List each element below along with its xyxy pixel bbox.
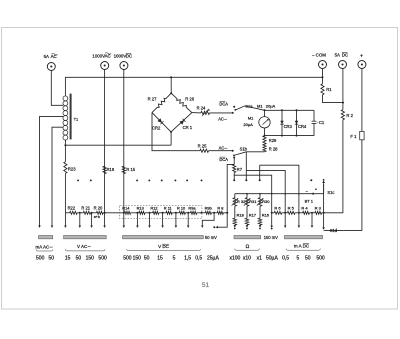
svg-text:+: + — [360, 54, 363, 60]
wire S1b DC contact down to R7 junction — [233, 158, 235, 165]
resistor R23 — [64, 162, 67, 174]
svg-text:1,5: 1,5 — [184, 255, 191, 261]
svg-text:50: 50 — [76, 255, 82, 261]
svg-text:0,5: 0,5 — [282, 255, 289, 261]
svg-text:R 20: R 20 — [94, 205, 103, 210]
wire mA-DC 50 tap — [311, 213, 313, 226]
wire ohm column 2 (R31+R17) — [246, 194, 248, 198]
svg-text:V DC: V DC — [158, 244, 170, 249]
switch contact arrow ohms x100 — [234, 225, 237, 227]
svg-text:R1: R1 — [326, 87, 332, 92]
svg-text:M1: M1 — [248, 116, 254, 121]
wire tap down to wafer arrow V-DC 15 — [162, 213, 164, 226]
wire + line below fuse down to S1d wire — [325, 140, 362, 231]
wire ohm column 3 (R30+R16) — [259, 194, 261, 198]
switch contact arrow ohms x1 — [259, 225, 262, 227]
resistor R29 — [263, 136, 266, 144]
transformer T1 core — [70, 94, 72, 140]
svg-text:CR3: CR3 — [284, 124, 293, 129]
diode CR2 (bridge arm) — [152, 113, 171, 132]
svg-text:AC∼: AC∼ — [219, 146, 228, 151]
node chain junction 1000VAC column — [103, 212, 123, 214]
wire junction branch to R8 right end — [227, 164, 234, 212]
svg-text:150: 150 — [86, 255, 95, 261]
resistor R15 — [122, 166, 125, 173]
wire tap down to wafer arrow V-AC 15 — [64, 213, 66, 226]
wire tap down to wafer arrow V-AC 150 — [91, 213, 93, 226]
resistor R4 — [303, 211, 310, 214]
resistor R19 — [103, 166, 106, 173]
rotary contact dots row — [77, 179, 79, 181]
svg-text:R 11: R 11 — [164, 206, 172, 211]
wire tap down to wafer arrow V-DC 50 — [149, 213, 151, 226]
dashed enclosure around V-DC divider — [120, 206, 202, 219]
svg-text:25µA: 25µA — [207, 255, 219, 261]
transformer T1 primary coil — [63, 96, 68, 101]
svg-text:500: 500 — [36, 255, 45, 261]
node junction transformer-bottom / bridge return rail — [64, 144, 66, 146]
svg-text:50: 50 — [144, 255, 150, 261]
svg-text:R13: R13 — [137, 206, 144, 211]
node chain junction S1d — [322, 212, 325, 214]
svg-text:20µA: 20µA — [266, 104, 276, 109]
terminal J4 -COM — [319, 61, 327, 69]
wire transformer bottom column down through R23 to chain — [64, 140, 66, 162]
switch contact stub+dot bus2 — [245, 170, 247, 179]
svg-text:R23: R23 — [68, 166, 76, 171]
wire chain segment left — [65, 212, 69, 214]
rheostat R31 — [245, 198, 248, 207]
switch contact arrow ohms x10 — [246, 225, 249, 227]
node chain tap V-DC 50 — [145, 212, 153, 214]
wire meter bottom rail — [265, 135, 315, 137]
resistor R26 (bridge arm) — [171, 93, 192, 112]
node chain tap V-DC 15 — [159, 212, 166, 214]
wire S1 bus 1 — [260, 165, 299, 213]
svg-text:– COM: – COM — [312, 52, 326, 57]
svg-text:5A: 5A — [335, 52, 340, 57]
svg-text:CR4: CR4 — [298, 124, 307, 129]
wire bridge top vertex to top rail — [170, 77, 172, 93]
switch S1c wiper left-arrow — [311, 192, 313, 195]
wire transformer tap 2 — [40, 117, 64, 226]
svg-text:R22: R22 — [68, 205, 76, 210]
switch contact arrow mA-AC 50 — [51, 226, 54, 228]
svg-text:R 27: R 27 — [148, 96, 158, 101]
wire R24 to S1a AC contact — [210, 112, 233, 114]
terminal J5 5A DC — [339, 61, 347, 69]
wire 5A DC line down to chain corner — [325, 120, 343, 213]
svg-text:R14: R14 — [122, 206, 130, 211]
svg-text:R9a: R9a — [188, 206, 196, 211]
svg-text:1000V: 1000V — [114, 53, 127, 58]
svg-text:DC: DC — [126, 53, 132, 58]
svg-text:20µA: 20µA — [243, 122, 253, 127]
resistor R20 — [96, 211, 103, 214]
wire ohms rail to S1c — [235, 193, 324, 195]
wire bridge bottom vertex drop — [170, 132, 172, 145]
svg-text:x10: x10 — [243, 255, 251, 261]
svg-text:R 6: R 6 — [274, 205, 281, 210]
capacitor C1 — [313, 110, 315, 121]
wire tap down to wafer arrow V-DC 150 — [136, 213, 138, 226]
wire S1c junction down to chain — [323, 194, 325, 213]
resistor R13 — [139, 211, 145, 214]
svg-text:R30: R30 — [262, 199, 270, 204]
svg-text:S1b: S1b — [240, 146, 248, 151]
svg-text:R7: R7 — [237, 167, 243, 172]
node bridge bottom vertex — [170, 131, 172, 133]
switch contact arrow mA-AC 500 — [38, 226, 41, 228]
terminal J2 1000V AC — [101, 62, 109, 70]
resistor R22 — [70, 211, 78, 214]
svg-text:R31: R31 — [249, 199, 257, 204]
svg-text:R 26: R 26 — [185, 96, 195, 101]
resistor R8 — [217, 211, 223, 214]
resistor R21 — [83, 211, 90, 214]
node S1c contact dot — [310, 179, 312, 181]
node S1b AC contact — [232, 150, 234, 152]
wire 5A AC terminal drop to transformer tap — [51, 71, 63, 106]
svg-text:R 21: R 21 — [81, 205, 90, 210]
node chain tap V-DC 150 — [131, 212, 139, 214]
svg-text:5A: 5A — [44, 54, 49, 59]
svg-text:CR 1: CR 1 — [183, 125, 193, 130]
wire bridge left vertex down to AC rail — [152, 113, 200, 151]
svg-text:C1: C1 — [319, 120, 325, 125]
diode CR1 (bridge arm) — [171, 113, 192, 132]
node chain junction 50uA (R6 left) — [272, 212, 275, 214]
svg-text:M1: M1 — [257, 104, 263, 109]
wire ohm column 1 (R32+R18) — [234, 194, 236, 198]
svg-text:Ω: Ω — [246, 244, 250, 250]
svg-text:R 3: R 3 — [315, 205, 322, 210]
wire tap down to wafer arrow V-DC 5 — [175, 213, 177, 226]
wire chain right end to 25uA step — [223, 212, 227, 214]
wire 5A DC terminal down — [342, 69, 344, 110]
svg-text:S1a: S1a — [245, 104, 253, 109]
node chain tap mA-DC 50 — [309, 212, 314, 214]
wire tap down to wafer arrow V-DC 1.5 — [187, 213, 189, 226]
switch contact arrow 25uA — [216, 226, 218, 229]
switch wafer bar mA-DC — [285, 236, 323, 239]
svg-text:15: 15 — [157, 255, 163, 261]
node chain junction R9a-R9b — [197, 212, 205, 214]
wire column3 to contact arrow — [259, 224, 261, 227]
wire + terminal down to fuse — [361, 69, 363, 132]
wire R28 bottom to S1b pivot — [246, 151, 264, 153]
fuse F1 — [360, 131, 364, 139]
wire column2 to contact arrow — [246, 224, 248, 227]
svg-text:5: 5 — [297, 255, 300, 261]
svg-text:R 24: R 24 — [197, 105, 206, 110]
switch S1c wiper up-arrow — [323, 183, 325, 194]
svg-text:R18: R18 — [237, 212, 245, 217]
svg-text:R 25: R 25 — [198, 144, 208, 149]
resistor R5 — [287, 211, 295, 214]
wire meter top rail — [265, 109, 315, 111]
svg-text:AC∼: AC∼ — [218, 116, 227, 121]
terminal J1 5A AC — [47, 63, 55, 71]
node junction -COM on rail — [322, 76, 324, 78]
svg-text:0,5: 0,5 — [195, 255, 202, 261]
svg-text:DC: DC — [342, 52, 348, 57]
svg-text:BT 1: BT 1 — [305, 199, 314, 204]
wire bridge right vertex to R24 — [192, 112, 201, 114]
rheostat R30 — [258, 198, 261, 207]
wire R1 to 5A DC line — [323, 95, 344, 103]
svg-text:R 10: R 10 — [177, 206, 186, 211]
svg-text:500: 500 — [123, 255, 132, 261]
resistor R3 — [315, 211, 322, 214]
wire column1 to contact arrow — [234, 224, 236, 227]
svg-text:F 1: F 1 — [350, 134, 357, 139]
battery BT1 polarity marks — [315, 188, 317, 190]
wire bridge return rail — [65, 144, 171, 146]
switch contact arrow V-DC 0.5 — [201, 226, 204, 228]
svg-text:500: 500 — [98, 255, 107, 261]
resistor R9b — [205, 211, 211, 214]
wire 1000V AC column down to chain — [104, 70, 106, 213]
svg-text:DCA: DCA — [219, 101, 228, 106]
node S1b DC contact — [233, 157, 235, 159]
resistor R18 — [233, 218, 236, 225]
wire R25 to S1b AC contact — [209, 150, 233, 152]
svg-text:R29: R29 — [269, 138, 277, 143]
svg-text:R 15: R 15 — [126, 167, 135, 172]
svg-text:15: 15 — [65, 255, 71, 261]
svg-text:51: 51 — [202, 282, 210, 289]
svg-text:1000V: 1000V — [92, 53, 105, 58]
switch wafer bar V-DC — [123, 236, 204, 239]
switch wafer bar V-AC — [64, 236, 107, 239]
svg-text:mA AC∼: mA AC∼ — [36, 245, 54, 250]
node junction bridge-top on rail — [170, 76, 172, 78]
switch contact stub+dot bus3 — [233, 175, 235, 179]
switch S1a wiper arm — [235, 106, 264, 110]
resistor R27 (bridge arm) — [152, 93, 171, 112]
wire mA-DC 0.5 tap — [284, 213, 286, 226]
wire tap down to wafer arrow V-DC 500 — [123, 213, 125, 226]
node chain tap mA-DC 0.5 — [282, 212, 288, 214]
svg-text:5: 5 — [173, 255, 176, 261]
svg-text:50: 50 — [49, 255, 55, 261]
wire S1 bus 3 from R7 — [234, 173, 272, 213]
svg-text:x100: x100 — [229, 255, 240, 261]
svg-text:R16: R16 — [262, 212, 270, 217]
svg-text:R 4: R 4 — [301, 205, 308, 210]
svg-text:R 28: R 28 — [269, 146, 278, 151]
terminal J6 + — [358, 61, 366, 69]
wire 1000V DC column down to chain — [123, 70, 125, 213]
wire S1d to + line — [324, 229, 326, 231]
svg-text:DCA: DCA — [219, 157, 228, 162]
resistor R17 — [245, 218, 248, 225]
node bridge top vertex — [170, 92, 172, 94]
switch S1b wiper arm — [234, 152, 246, 156]
resistor R11 — [166, 211, 172, 214]
node chain tap V-DC 5 — [172, 212, 179, 214]
wire S1 bus 2 from S1b pivot — [246, 152, 285, 213]
diode CR3 — [281, 110, 283, 135]
svg-text:S1c: S1c — [327, 190, 334, 195]
switch S1d wiper arrow — [323, 213, 325, 228]
svg-text:R 5: R 5 — [288, 205, 295, 210]
node chain tap V-AC 150 — [91, 212, 97, 214]
resistor R9a — [190, 211, 196, 214]
svg-text:V AC∼: V AC∼ — [77, 244, 91, 249]
node chain tap mA-DC 5 — [295, 212, 303, 214]
node chain tap V-AC 50 — [77, 212, 83, 214]
switch wafer bar ohms — [234, 236, 261, 239]
resistor R28 — [263, 144, 266, 152]
svg-text:R 32: R 32 — [237, 199, 246, 204]
wire mA-DC 5 tap — [298, 213, 300, 226]
wire 50uA tap — [271, 213, 273, 226]
svg-text:S1d: S1d — [330, 228, 338, 233]
svg-text:T1: T1 — [74, 117, 79, 122]
diode CR4 — [296, 110, 298, 135]
svg-text:50: 50 — [305, 255, 311, 261]
rheostat R32 — [233, 198, 236, 207]
wire 0.5V stepped tap — [202, 213, 214, 226]
svg-text:x1: x1 — [257, 255, 263, 261]
node S1a AC contact — [232, 112, 234, 114]
svg-text:R17: R17 — [249, 212, 257, 217]
resistor R6 — [274, 211, 282, 214]
svg-text:R 2: R 2 — [346, 113, 353, 118]
svg-text:150 mV: 150 mV — [264, 235, 278, 240]
svg-text:R 8: R 8 — [217, 206, 223, 211]
svg-text:R12: R12 — [150, 206, 157, 211]
svg-text:R9b: R9b — [205, 206, 212, 211]
node chain tap V-DC 1.5 — [185, 212, 190, 214]
resistor R12 — [153, 211, 159, 214]
meter M1 20uA — [264, 110, 266, 117]
terminal J3 1000V DC — [120, 62, 128, 70]
svg-text:150: 150 — [133, 255, 142, 261]
wire tap down to wafer arrow V-AC 500 — [104, 213, 106, 226]
wire meter bottom to R29 — [264, 128, 266, 136]
svg-text:500: 500 — [316, 255, 325, 261]
node chain junction V-DC 500 — [123, 212, 125, 214]
wire tap down to wafer arrow V-AC 50 — [79, 213, 81, 226]
switch wafer bar mA-AC — [39, 236, 53, 239]
svg-text:50µA: 50µA — [266, 255, 278, 261]
resistor R7 — [233, 164, 236, 172]
resistor R16 — [258, 218, 261, 225]
wire R23 bottom to chain — [64, 173, 66, 212]
switch contact stub+dot bus1 — [259, 165, 261, 179]
svg-text:a+b: a+b — [94, 215, 100, 219]
svg-text:m A DC: m A DC — [294, 244, 310, 249]
resistor R10 — [179, 211, 185, 214]
wire transformer tap 3 — [52, 127, 63, 225]
wire top rail from transformer to -COM — [65, 77, 322, 96]
resistor R1 — [321, 84, 324, 95]
svg-text:R19: R19 — [107, 167, 115, 172]
node chain junction 0.5V tap — [211, 212, 217, 214]
resistor R14 — [124, 211, 130, 214]
wire -COM stub — [322, 69, 324, 84]
svg-text:50 mV: 50 mV — [205, 235, 217, 240]
node S1a DC contact — [233, 106, 235, 108]
resistor R2 — [341, 110, 344, 120]
resistor R25 — [200, 149, 209, 152]
svg-text:CR2: CR2 — [152, 126, 161, 131]
